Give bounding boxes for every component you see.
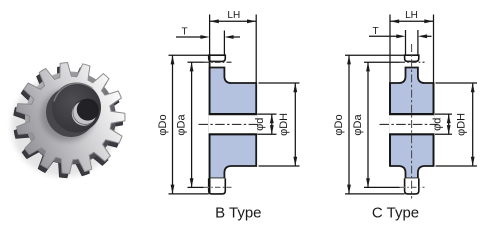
C pitch dash line bottom (400, 186, 425, 188)
B dim phiDo: bottom arrowhead (171, 185, 175, 194)
B dim phiDa: top arrowhead (190, 62, 194, 71)
B dim phiDo: bottom extension line (169, 193, 209, 195)
svg-text:φDo: φDo (157, 114, 169, 135)
C bore top line (389, 113, 434, 115)
C dim LH: left extension line (389, 15, 391, 84)
C hub right edge upper segment (433, 83, 435, 114)
B dim phiDa: dimension line (191, 62, 193, 187)
C dim phid: bottom arrowhead (447, 125, 451, 134)
svg-text:LH: LH (227, 10, 240, 21)
sprocket photo: back side of gear (thickness) (14, 67, 123, 178)
C dim phiDa: bottom extension line (364, 186, 400, 188)
svg-text:LH: LH (405, 10, 418, 21)
sprocket photo: bore inner wall lit part (72, 101, 96, 125)
C dim phiDo: top extension line (345, 54, 405, 56)
B bore band (white) (209, 115, 257, 134)
C dim phiDo: bottom arrowhead (347, 185, 351, 194)
C hub left edge lower segment (389, 134, 391, 166)
B dim LH: dimension line (210, 20, 257, 22)
B dim phid: bottom arrowhead (270, 125, 274, 134)
B dim T: right extension line (223, 31, 225, 56)
C bore bottom line (389, 133, 434, 135)
B dim phiDa: bottom arrowhead (190, 178, 194, 187)
B dim phid: dimension line (271, 114, 273, 134)
B dim phiDH: extension line bottom (259, 165, 300, 167)
B dim phiDH: extension line top (259, 82, 300, 84)
B horizontal centerline (199, 123, 260, 125)
C bore band (white) (389, 115, 434, 134)
B dim phid: extension line bottom (258, 133, 277, 135)
C dim phiDa: top arrowhead (366, 62, 370, 71)
svg-text:φd: φd (254, 118, 266, 131)
B dim phid: extension line top (258, 113, 277, 115)
B bore bottom line (209, 133, 257, 135)
sprocket photo: bore rim line (73, 100, 98, 125)
C dim T: left extension line (405, 30, 407, 55)
C dim phiDo: bottom extension line (345, 193, 405, 195)
sprocket photo: rim under-disc (valley shading) (25, 72, 116, 165)
C dim LH: right extension line (433, 15, 435, 84)
B plate left edge upper segment (209, 55, 211, 114)
C vertical centerline (411, 44, 413, 199)
C dim phid: dimension line (448, 114, 450, 134)
svg-text:φDH: φDH (278, 113, 290, 136)
C horizontal centerline (380, 123, 438, 125)
sprocket photo: bore dark opening (77, 99, 99, 121)
C dim T: right arrowhead (418, 34, 427, 38)
svg-text:C Type: C Type (372, 205, 419, 222)
B dim phiDo: top extension line (169, 54, 209, 56)
svg-text:φDa: φDa (352, 114, 364, 136)
C dim phiDo: dimension line (348, 55, 350, 194)
sprocket photo: hub cylinder side (46, 87, 96, 137)
B dim phiDH: bottom arrowhead (293, 157, 297, 166)
B dim phid: top arrowhead (270, 114, 274, 123)
B dim T: right tail (233, 36, 240, 38)
B dim LH: left extension line (209, 15, 211, 56)
B dim LH: left arrowhead (210, 19, 219, 23)
C dim LH: left arrowhead (390, 19, 399, 23)
B dim phiDH: dimension line (294, 83, 296, 166)
B dim T: dimension line left tail with arrow (176, 36, 201, 38)
B dim phiDo: top arrowhead (171, 55, 175, 64)
C pitch dash line top (400, 61, 425, 63)
C dim phiDa: dimension line (367, 62, 369, 187)
B dim LH: right arrowhead (247, 19, 256, 23)
C dim LH: right arrowhead (424, 19, 433, 23)
svg-text:T: T (372, 26, 378, 37)
C tooth tip top (405, 55, 419, 61)
svg-text:φd: φd (432, 118, 444, 131)
B dim phiDa: top extension line (188, 61, 204, 63)
C dim phid: top arrowhead (447, 114, 451, 123)
B pitch dash line top (204, 61, 232, 63)
B dim LH: right extension line (255, 15, 257, 84)
C dim phiDa: top extension line (364, 61, 400, 63)
C dim phiDH: dimension line (472, 83, 474, 166)
B plate left edge lower segment (209, 134, 211, 194)
svg-text:φDo: φDo (333, 114, 345, 135)
C tooth tip bottom (405, 178, 419, 194)
B dim phiDa: bottom extension line (188, 186, 204, 188)
B body: blue section (plate + hub) (210, 68, 257, 179)
C dim phiDo: top arrowhead (347, 55, 351, 64)
C dim phid: extension line bottom (435, 133, 452, 135)
C dim T: right extension line (417, 30, 419, 55)
C dim LH: dimension line (390, 20, 434, 22)
C dim phid: extension line top (435, 113, 452, 115)
sprocket photo: hub shadow cast on plate (41, 89, 95, 142)
B bore top line (209, 113, 257, 115)
B dim T: right arrowhead (224, 35, 233, 39)
C dim T: dimension line left tail (369, 35, 397, 37)
C dim phiDa: bottom arrowhead (366, 178, 370, 187)
C dim phiDH: extension line top (436, 82, 478, 84)
C dim T: left arrowhead (396, 34, 405, 38)
C dim phiDH: top arrowhead (471, 83, 475, 92)
sprocket photo: front gear face (16, 63, 125, 174)
sprocket photo: drop shadow (11, 75, 117, 177)
C hub left edge upper segment (389, 83, 391, 114)
C dim phiDH: bottom arrowhead (471, 157, 475, 166)
sprocket photo: hub front face (52, 83, 101, 133)
B pitch dash line bottom (204, 186, 232, 188)
C hub right edge lower segment (433, 134, 435, 166)
B dim T: left arrowhead (200, 35, 209, 39)
B tooth tip bottom (209, 178, 226, 194)
C body: blue section (plate + hub both sides) (390, 68, 434, 179)
svg-text:φDH: φDH (455, 113, 467, 136)
svg-text:B Type: B Type (215, 205, 261, 222)
C dim phiDH: extension line bottom (436, 165, 478, 167)
B dim phiDo: dimension line (172, 55, 174, 194)
B tooth tip top (209, 55, 226, 61)
C dim T: right tail (427, 35, 432, 37)
svg-text:T: T (181, 27, 187, 38)
B dim phiDH: top arrowhead (293, 83, 297, 92)
svg-text:φDa: φDa (175, 114, 187, 136)
sprocket photo: hub face rim highlight (54, 83, 93, 101)
